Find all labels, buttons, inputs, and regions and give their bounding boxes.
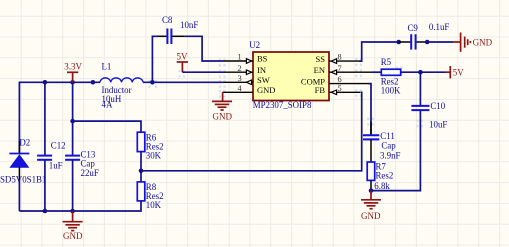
svg-text:10nF: 10nF <box>180 20 198 30</box>
svg-text:C11: C11 <box>380 131 394 141</box>
svg-text:6: 6 <box>338 75 342 84</box>
svg-text:3: 3 <box>237 74 241 83</box>
svg-text:1uF: 1uF <box>49 161 63 171</box>
svg-text:Res2: Res2 <box>376 171 394 181</box>
svg-text:SD5V0S1B1: SD5V0S1B1 <box>0 175 46 185</box>
ground GND bottom right <box>361 191 381 209</box>
resistor R8 <box>137 182 145 201</box>
wire R8 top <box>140 171 142 182</box>
node junction C12 bottom <box>43 209 48 214</box>
power 5V left <box>177 62 188 72</box>
pin 6 COMP <box>301 75 369 86</box>
resistor R7 <box>367 162 375 180</box>
power 5V right (sideways) <box>445 66 450 78</box>
svg-text:5: 5 <box>338 84 342 93</box>
pin 4 GND <box>223 84 276 95</box>
svg-text:BS: BS <box>257 54 268 64</box>
svg-text:3.9nF: 3.9nF <box>380 150 401 160</box>
svg-text:SW: SW <box>257 75 270 85</box>
node junction GND right <box>369 188 374 193</box>
svg-text:D2: D2 <box>19 138 30 148</box>
node junction L1 left <box>91 80 96 85</box>
svg-text:EN: EN <box>314 65 325 75</box>
wire 5V to pin2 <box>182 71 223 73</box>
svg-text:22uF: 22uF <box>81 168 99 178</box>
wire SS to C9 <box>359 42 399 61</box>
wire C8 right to pin1 <box>185 36 223 61</box>
node connection markers (pale) <box>148 58 423 127</box>
svg-text:SS: SS <box>316 54 326 64</box>
pin 3 SW <box>223 74 270 85</box>
node junction C12 top <box>43 80 48 85</box>
pin 1 BS <box>223 53 268 64</box>
svg-text:GND: GND <box>213 111 233 121</box>
capacitor C12 <box>37 82 52 211</box>
svg-text:4A: 4A <box>102 99 113 109</box>
capacitor C11 <box>363 122 379 163</box>
svg-text:GND: GND <box>473 38 493 48</box>
svg-text:2: 2 <box>237 64 241 73</box>
capacitor C10 <box>411 72 429 110</box>
IC U2 MP2307_SOIP8 <box>253 52 329 101</box>
pin 8 SS <box>316 53 359 64</box>
resistor R6 <box>137 132 145 151</box>
svg-text:C9: C9 <box>408 23 419 33</box>
svg-text:100K: 100K <box>381 86 401 96</box>
svg-text:GND: GND <box>63 231 83 241</box>
node junction C9 right <box>425 40 430 45</box>
diode D2 <box>9 141 29 211</box>
node junction R6 R8 <box>139 169 144 174</box>
svg-text:6.8k: 6.8k <box>374 181 390 191</box>
pin 2 IN <box>223 64 266 75</box>
svg-text:10K: 10K <box>146 200 162 210</box>
svg-text:MP2307_SOIP8: MP2307_SOIP8 <box>253 100 312 110</box>
wire C10 bottom to GND junction <box>371 110 420 190</box>
pin 7 EN <box>314 64 372 75</box>
capacitor C9 <box>399 34 428 49</box>
node junction C13 branch <box>70 119 75 124</box>
wire 3.3V branch to R6 <box>73 121 141 132</box>
svg-text:8: 8 <box>338 53 342 62</box>
svg-text:C8: C8 <box>162 15 173 25</box>
wire R6 bottom <box>140 152 142 171</box>
ground GND top right (sideways) <box>453 33 470 52</box>
node junction C9 left <box>396 40 401 45</box>
node junction C10 top <box>418 70 423 75</box>
wire R5 to 5V <box>401 71 445 73</box>
svg-text:5V: 5V <box>453 68 465 78</box>
wire C8 left drop <box>152 36 158 82</box>
wire R8 bottom to rail <box>19 201 141 211</box>
svg-text:IN: IN <box>257 65 266 75</box>
wire FB to divider <box>141 92 362 171</box>
svg-text:FB: FB <box>315 85 326 95</box>
svg-text:30K: 30K <box>146 150 162 160</box>
wire R7 to GND <box>370 180 372 190</box>
power 3.3V <box>67 72 78 82</box>
node junction GND bottom <box>70 209 75 214</box>
resistor R5 <box>381 69 400 75</box>
wire C9 to GND <box>427 41 453 43</box>
capacitor C8 <box>158 29 185 45</box>
svg-text:1: 1 <box>237 53 241 62</box>
svg-text:10uF: 10uF <box>429 120 447 130</box>
capacitor C13 <box>65 82 80 211</box>
node junction 3.3V stem <box>70 80 75 85</box>
svg-text:Cap: Cap <box>381 140 396 150</box>
pin 5 FB <box>315 84 361 95</box>
svg-text:3.3V: 3.3V <box>64 61 82 71</box>
wire SW to inductor <box>143 81 223 83</box>
svg-text:U2: U2 <box>249 40 260 50</box>
wire EN to R5 <box>372 71 381 73</box>
svg-text:7: 7 <box>338 64 342 73</box>
svg-text:GND: GND <box>257 85 275 95</box>
node junction C8 drop <box>150 80 155 85</box>
svg-text:C10: C10 <box>430 101 445 111</box>
inductor L1 <box>100 78 143 82</box>
svg-text:L1: L1 <box>102 62 112 72</box>
ground GND bottom center <box>63 211 83 231</box>
svg-text:5V: 5V <box>177 52 189 62</box>
ground GND under IC <box>212 92 232 110</box>
svg-text:R5: R5 <box>381 57 392 67</box>
wire COMP to C11 <box>368 84 371 136</box>
wire 3.3V rail <box>19 82 100 153</box>
svg-text:C12: C12 <box>51 141 66 151</box>
svg-text:GND: GND <box>361 211 381 221</box>
svg-text:0.1uF: 0.1uF <box>429 22 450 32</box>
